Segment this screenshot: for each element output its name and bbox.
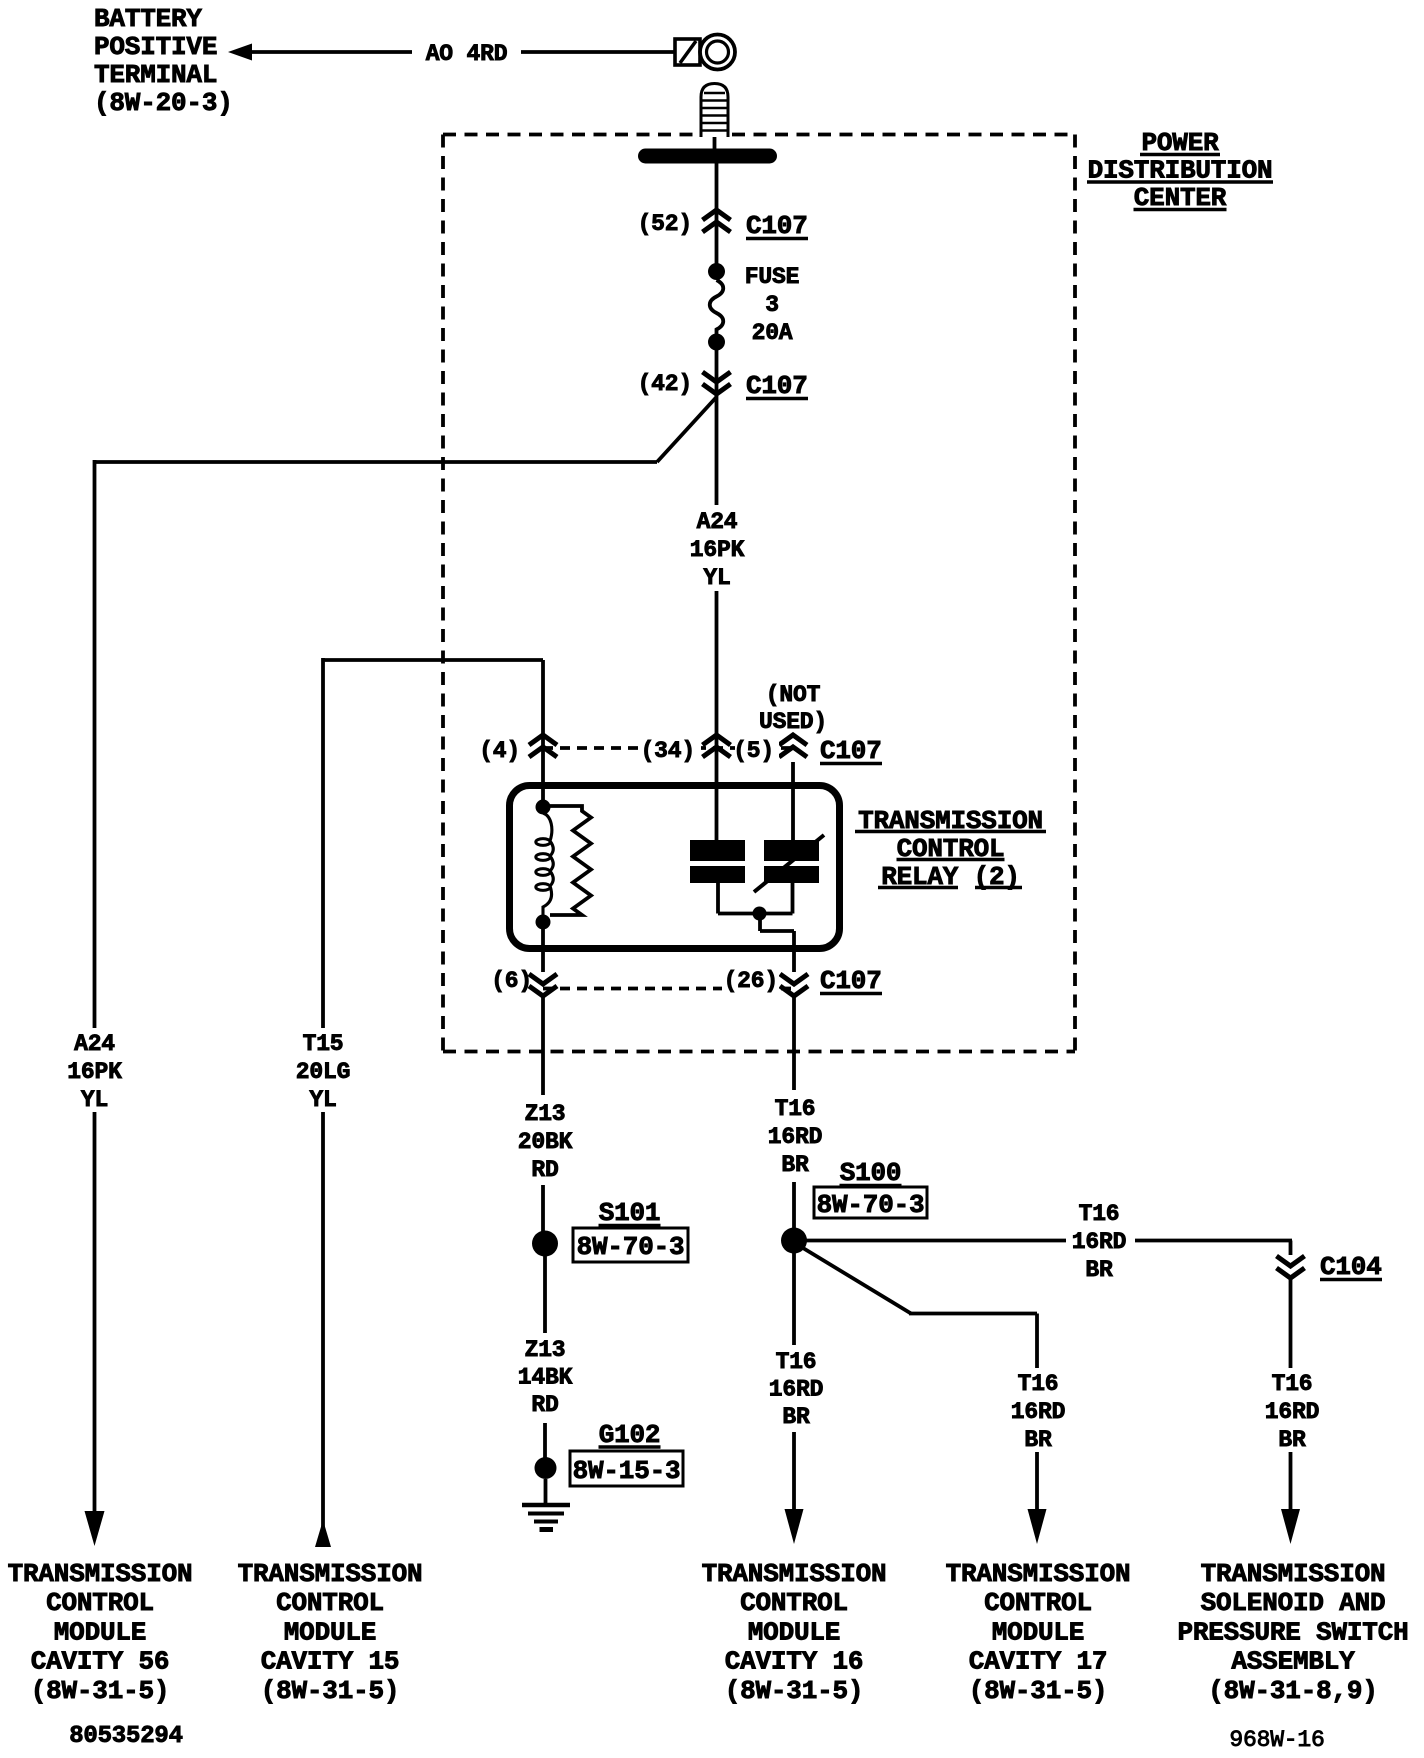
svg-text:(4): (4) (479, 738, 520, 764)
svg-text:(42): (42) (638, 371, 692, 397)
svg-text:YL: YL (703, 565, 730, 591)
svg-text:BR: BR (781, 1152, 809, 1178)
svg-text:20LG: 20LG (296, 1059, 350, 1085)
svg-text:Z13: Z13 (525, 1337, 566, 1363)
svg-text:16PK: 16PK (67, 1059, 122, 1085)
svg-text:16RD: 16RD (768, 1124, 822, 1150)
svg-text:SOLENOID AND: SOLENOID AND (1201, 1588, 1386, 1618)
svg-text:8W-70-3: 8W-70-3 (817, 1190, 925, 1220)
svg-text:T16: T16 (776, 1349, 817, 1375)
svg-text:(6): (6) (491, 968, 532, 994)
svg-text:POSITIVE: POSITIVE (94, 32, 217, 62)
svg-text:968W-16: 968W-16 (1229, 1727, 1324, 1753)
svg-text:RD: RD (531, 1392, 558, 1418)
svg-text:MODULE: MODULE (748, 1617, 840, 1647)
svg-text:T16: T16 (1272, 1371, 1313, 1397)
svg-text:CONTROL: CONTROL (740, 1588, 848, 1618)
svg-text:ASSEMBLY: ASSEMBLY (1231, 1647, 1355, 1677)
svg-text:8W-15-3: 8W-15-3 (573, 1456, 681, 1486)
svg-text:3: 3 (765, 292, 779, 318)
svg-text:RD: RD (531, 1157, 558, 1183)
svg-text:TRANSMISSION: TRANSMISSION (1201, 1559, 1386, 1589)
svg-text:BR: BR (1085, 1257, 1113, 1283)
svg-text:A24: A24 (74, 1031, 115, 1057)
svg-text:16RD: 16RD (1072, 1229, 1126, 1255)
svg-text:BR: BR (782, 1404, 810, 1430)
svg-text:T15: T15 (303, 1031, 344, 1057)
svg-text:(8W-31-5): (8W-31-5) (969, 1676, 1108, 1706)
svg-text:CONTROL: CONTROL (984, 1588, 1092, 1618)
svg-text:TRANSMISSION: TRANSMISSION (8, 1559, 193, 1589)
svg-text:T16: T16 (775, 1096, 816, 1122)
svg-text:AO 4RD: AO 4RD (426, 41, 508, 67)
svg-text:T16: T16 (1079, 1201, 1120, 1227)
svg-text:16RD: 16RD (1265, 1399, 1319, 1425)
svg-text:C104: C104 (1320, 1252, 1382, 1282)
svg-text:MODULE: MODULE (992, 1617, 1084, 1647)
svg-text:YL: YL (81, 1087, 108, 1113)
svg-text:(8W-31-5): (8W-31-5) (261, 1676, 400, 1706)
svg-text:MODULE: MODULE (54, 1617, 146, 1647)
svg-text:80535294: 80535294 (69, 1723, 183, 1750)
svg-text:(52): (52) (638, 211, 692, 237)
svg-text:(5): (5) (733, 738, 774, 764)
svg-text:(8W-20-3): (8W-20-3) (94, 88, 233, 118)
svg-text:(26): (26) (724, 968, 778, 994)
svg-text:USED): USED) (759, 709, 827, 735)
svg-text:Z13: Z13 (525, 1101, 566, 1127)
svg-text:BR: BR (1278, 1427, 1306, 1453)
svg-text:BR: BR (1024, 1427, 1052, 1453)
svg-text:TRANSMISSION: TRANSMISSION (946, 1559, 1131, 1589)
svg-text:20BK: 20BK (518, 1129, 573, 1155)
svg-text:TERMINAL: TERMINAL (94, 60, 217, 90)
svg-text:14BK: 14BK (518, 1365, 573, 1391)
svg-text:A24: A24 (697, 509, 738, 535)
svg-text:PRESSURE SWITCH: PRESSURE SWITCH (1177, 1617, 1408, 1647)
svg-text:(8W-31-5): (8W-31-5) (725, 1676, 864, 1706)
svg-text:CONTROL: CONTROL (46, 1588, 154, 1618)
svg-text:CAVITY 16: CAVITY 16 (725, 1647, 864, 1677)
svg-text:20A: 20A (752, 320, 793, 346)
svg-text:CONTROL: CONTROL (276, 1588, 384, 1618)
svg-text:T16: T16 (1018, 1371, 1059, 1397)
svg-text:YL: YL (309, 1087, 336, 1113)
svg-text:S101: S101 (599, 1198, 661, 1228)
svg-text:CAVITY 56: CAVITY 56 (31, 1647, 170, 1677)
svg-text:C107: C107 (820, 966, 882, 996)
svg-text:16RD: 16RD (1011, 1399, 1065, 1425)
svg-text:8W-70-3: 8W-70-3 (577, 1232, 685, 1262)
svg-text:C107: C107 (746, 211, 808, 241)
svg-text:C107: C107 (746, 371, 808, 401)
svg-text:S100: S100 (840, 1158, 902, 1188)
svg-text:(8W-31-8,9): (8W-31-8,9) (1208, 1676, 1377, 1706)
svg-text:TRANSMISSION: TRANSMISSION (702, 1559, 887, 1589)
svg-text:BATTERY: BATTERY (94, 4, 202, 34)
svg-text:(8W-31-5): (8W-31-5) (31, 1676, 170, 1706)
svg-text:(34): (34) (641, 738, 695, 764)
svg-text:FUSE: FUSE (745, 264, 799, 290)
svg-text:CAVITY 15: CAVITY 15 (261, 1647, 400, 1677)
svg-text:CAVITY 17: CAVITY 17 (969, 1647, 1108, 1677)
svg-text:TRANSMISSION: TRANSMISSION (238, 1559, 423, 1589)
svg-text:MODULE: MODULE (284, 1617, 376, 1647)
svg-text:16RD: 16RD (769, 1377, 823, 1403)
svg-text:C107: C107 (820, 736, 882, 766)
svg-text:16PK: 16PK (690, 537, 745, 563)
svg-text:(NOT: (NOT (766, 682, 821, 708)
